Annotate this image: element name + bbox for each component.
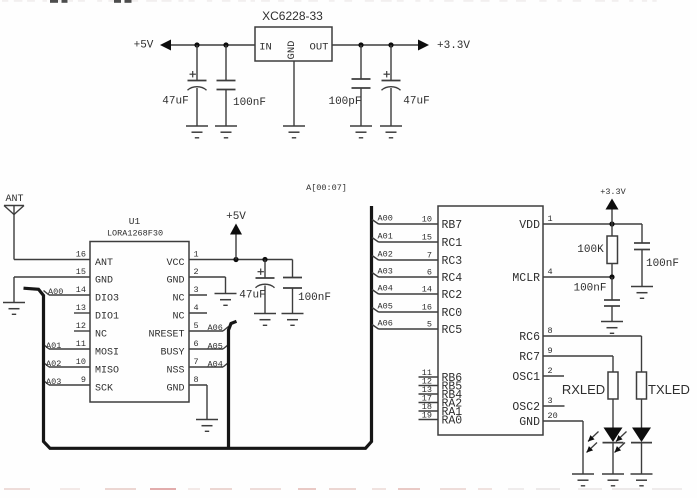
svg-text:TXLED: TXLED bbox=[648, 382, 690, 397]
svg-text:MOSI: MOSI bbox=[95, 348, 119, 359]
svg-text:XC6228-33: XC6228-33 bbox=[262, 9, 323, 23]
svg-text:MISO: MISO bbox=[95, 366, 119, 377]
svg-text:100nF: 100nF bbox=[298, 292, 331, 304]
svg-text:14: 14 bbox=[422, 285, 432, 295]
svg-text:GND: GND bbox=[519, 416, 540, 429]
svg-text:2: 2 bbox=[194, 267, 199, 277]
svg-text:+5V: +5V bbox=[226, 211, 246, 223]
svg-text:14: 14 bbox=[76, 285, 86, 295]
svg-text:1: 1 bbox=[194, 250, 199, 260]
svg-text:16: 16 bbox=[76, 250, 86, 260]
svg-text:A04: A04 bbox=[208, 360, 223, 370]
svg-text:GND: GND bbox=[166, 276, 184, 287]
svg-text:+3.3V: +3.3V bbox=[600, 187, 626, 197]
svg-text:NRESET: NRESET bbox=[148, 330, 184, 341]
svg-text:19: 19 bbox=[422, 411, 432, 421]
svg-text:RC6: RC6 bbox=[519, 331, 540, 344]
svg-text:10: 10 bbox=[422, 215, 432, 225]
svg-text:RC1: RC1 bbox=[442, 237, 463, 250]
svg-text:+5V: +5V bbox=[134, 40, 154, 52]
svg-text:6: 6 bbox=[194, 339, 199, 349]
svg-text:3: 3 bbox=[548, 396, 553, 406]
svg-text:20: 20 bbox=[548, 411, 558, 421]
svg-text:7: 7 bbox=[194, 357, 199, 367]
svg-text:A[00:07]: A[00:07] bbox=[306, 183, 347, 193]
svg-text:GND: GND bbox=[166, 384, 184, 395]
svg-text:3: 3 bbox=[194, 285, 199, 295]
svg-text:12: 12 bbox=[76, 321, 86, 331]
svg-text:9: 9 bbox=[81, 375, 86, 385]
svg-text:A03: A03 bbox=[378, 267, 393, 277]
svg-text:4: 4 bbox=[194, 303, 199, 313]
svg-text:A02: A02 bbox=[46, 359, 61, 369]
svg-text:A00: A00 bbox=[378, 214, 393, 224]
svg-text:2: 2 bbox=[548, 366, 553, 376]
svg-text:NC: NC bbox=[172, 312, 184, 323]
svg-text:100nF: 100nF bbox=[646, 258, 679, 270]
svg-text:DIO3: DIO3 bbox=[95, 294, 119, 305]
svg-text:A01: A01 bbox=[378, 232, 393, 242]
svg-text:A06: A06 bbox=[208, 323, 223, 333]
svg-text:9: 9 bbox=[548, 346, 553, 356]
svg-text:SCK: SCK bbox=[95, 384, 113, 395]
svg-text:5: 5 bbox=[194, 321, 199, 331]
svg-text:OSC2: OSC2 bbox=[512, 401, 540, 414]
svg-text:LORA1268F30: LORA1268F30 bbox=[107, 229, 163, 239]
svg-text:BUSY: BUSY bbox=[160, 348, 184, 359]
svg-text:RA0: RA0 bbox=[442, 414, 463, 427]
svg-text:DIO1: DIO1 bbox=[95, 312, 119, 323]
svg-text:RXLED: RXLED bbox=[562, 382, 605, 397]
svg-text:47uF: 47uF bbox=[403, 96, 429, 108]
svg-text:VCC: VCC bbox=[166, 258, 184, 269]
svg-text:100K: 100K bbox=[577, 244, 604, 256]
svg-text:GND: GND bbox=[95, 276, 113, 287]
svg-text:RC7: RC7 bbox=[519, 351, 540, 364]
svg-text:RC3: RC3 bbox=[442, 255, 463, 268]
svg-text:GND: GND bbox=[286, 41, 298, 60]
svg-text:47uF: 47uF bbox=[239, 290, 265, 302]
svg-text:RC4: RC4 bbox=[442, 272, 463, 285]
svg-text:VDD: VDD bbox=[519, 219, 540, 232]
svg-text:RC5: RC5 bbox=[442, 324, 463, 337]
svg-text:16: 16 bbox=[422, 303, 432, 313]
svg-text:RC0: RC0 bbox=[442, 307, 463, 320]
svg-text:NC: NC bbox=[95, 330, 107, 341]
svg-text:100nF: 100nF bbox=[233, 97, 266, 109]
svg-text:7: 7 bbox=[427, 251, 432, 261]
svg-text:100pF: 100pF bbox=[328, 96, 361, 108]
svg-text:A05: A05 bbox=[208, 342, 223, 352]
svg-text:100nF: 100nF bbox=[573, 283, 606, 295]
svg-text:NSS: NSS bbox=[166, 366, 184, 377]
svg-text:ANT: ANT bbox=[95, 258, 113, 269]
svg-text:8: 8 bbox=[548, 326, 553, 336]
svg-text:A00: A00 bbox=[48, 287, 63, 297]
svg-text:11: 11 bbox=[76, 339, 86, 349]
svg-text:OSC1: OSC1 bbox=[512, 371, 540, 384]
svg-text:U1: U1 bbox=[129, 216, 141, 227]
svg-text:IN: IN bbox=[259, 42, 272, 54]
svg-text:8: 8 bbox=[194, 375, 199, 385]
svg-text:A02: A02 bbox=[378, 250, 393, 260]
svg-text:OUT: OUT bbox=[310, 42, 329, 54]
svg-text:A03: A03 bbox=[46, 377, 61, 387]
svg-text:A04: A04 bbox=[378, 284, 393, 294]
svg-text:6: 6 bbox=[427, 268, 432, 278]
svg-text:1: 1 bbox=[548, 214, 553, 224]
svg-text:13: 13 bbox=[76, 303, 86, 313]
svg-text:47uF: 47uF bbox=[162, 96, 188, 108]
svg-text:ANT: ANT bbox=[5, 194, 23, 205]
svg-text:4: 4 bbox=[548, 267, 553, 277]
svg-text:RC2: RC2 bbox=[442, 289, 463, 302]
svg-text:A06: A06 bbox=[378, 319, 393, 329]
svg-text:10: 10 bbox=[76, 357, 86, 367]
svg-text:15: 15 bbox=[422, 233, 432, 243]
svg-text:MCLR: MCLR bbox=[512, 272, 540, 285]
svg-text:15: 15 bbox=[76, 267, 86, 277]
svg-text:A01: A01 bbox=[46, 341, 61, 351]
svg-text:NC: NC bbox=[172, 294, 184, 305]
svg-text:5: 5 bbox=[427, 320, 432, 330]
svg-text:A05: A05 bbox=[378, 302, 393, 312]
svg-text:+3.3V: +3.3V bbox=[437, 40, 470, 52]
svg-text:RB7: RB7 bbox=[442, 219, 463, 232]
